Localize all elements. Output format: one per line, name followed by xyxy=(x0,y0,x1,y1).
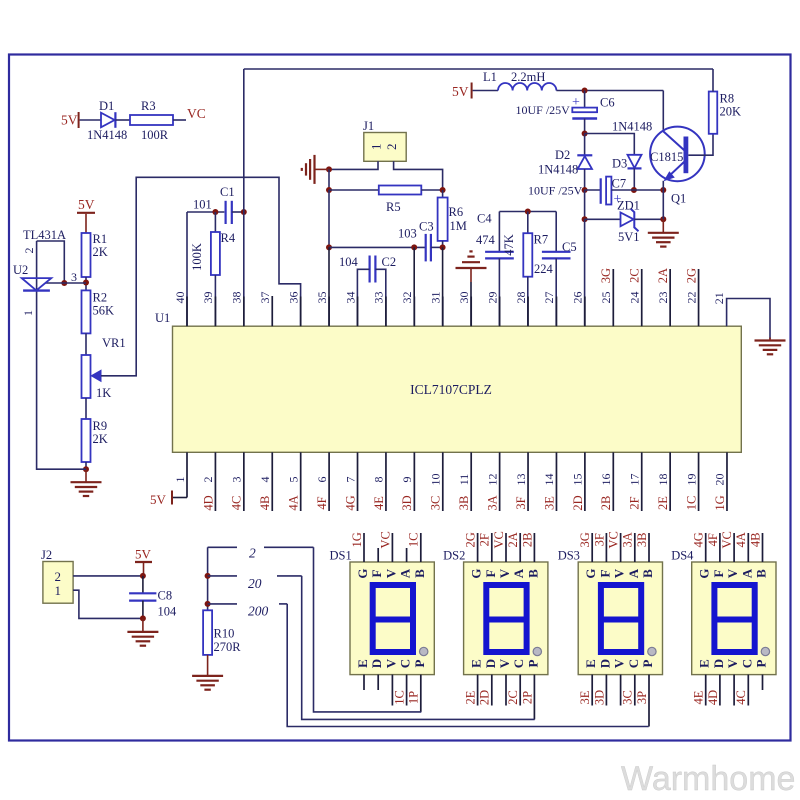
diode D1 1N4148 xyxy=(101,113,115,128)
svg-text:J2: J2 xyxy=(41,548,52,562)
svg-text:2: 2 xyxy=(384,144,399,151)
wire R8 top to rail xyxy=(712,69,714,92)
svg-text:3A: 3A xyxy=(485,495,499,510)
DS3 pin P (bottom) xyxy=(648,675,650,727)
DS2 digit segments xyxy=(486,585,526,652)
svg-text:2G: 2G xyxy=(463,532,477,547)
svg-text:1C: 1C xyxy=(407,533,421,548)
svg-text:C: C xyxy=(626,659,641,668)
svg-text:104: 104 xyxy=(158,605,178,619)
svg-text:C6: C6 xyxy=(600,96,615,110)
svg-text:4: 4 xyxy=(258,477,272,483)
resistor R6 1M xyxy=(442,190,444,198)
svg-text:1: 1 xyxy=(55,583,62,598)
DS3 decimal point xyxy=(648,647,656,655)
svg-text:4D: 4D xyxy=(706,690,720,705)
svg-text:V: V xyxy=(383,658,398,668)
node tap 200 xyxy=(205,601,211,607)
DS1 pin B (top) xyxy=(420,533,422,562)
svg-text:C4: C4 xyxy=(477,212,492,226)
svg-text:F: F xyxy=(483,569,498,577)
diode D3 1N4148 xyxy=(628,155,642,168)
wire C4 top lead xyxy=(498,212,500,252)
svg-text:2: 2 xyxy=(201,477,215,483)
pin 34 (U1 top) xyxy=(357,297,359,327)
svg-text:ICL7107CPLZ: ICL7107CPLZ xyxy=(410,382,492,397)
wire pin 32 column xyxy=(413,247,415,326)
svg-text:DS4: DS4 xyxy=(671,549,694,563)
svg-text:34: 34 xyxy=(343,292,357,304)
DS4 pin V (bottom) xyxy=(733,675,735,706)
DS4 decimal point xyxy=(761,647,769,655)
svg-text:R3: R3 xyxy=(141,99,156,113)
svg-text:31: 31 xyxy=(429,292,443,304)
node R7 top xyxy=(525,209,531,215)
wire C4 to pin 29 xyxy=(498,258,500,326)
svg-text:47K: 47K xyxy=(502,234,516,256)
pin 26 (U1 top) xyxy=(584,297,586,327)
DS3 pin V (top) xyxy=(620,533,622,562)
wire D3 node to emitter xyxy=(634,189,663,191)
DS2 pin G (top) xyxy=(477,533,479,562)
pin 24 (U1 top) xyxy=(641,269,643,326)
svg-text:18: 18 xyxy=(656,474,670,486)
svg-text:C: C xyxy=(398,659,413,668)
svg-text:C7: C7 xyxy=(612,177,627,191)
svg-text:1G: 1G xyxy=(350,532,364,547)
svg-text:10UF /25V: 10UF /25V xyxy=(528,183,583,197)
svg-text:ZD1: ZD1 xyxy=(617,199,640,213)
svg-text:200: 200 xyxy=(248,604,269,619)
pin 8 (U1 bottom) xyxy=(385,452,387,511)
wire 5V to D1 xyxy=(80,119,101,121)
svg-text:4G: 4G xyxy=(692,532,706,547)
svg-text:2G: 2G xyxy=(684,268,698,283)
svg-text:104: 104 xyxy=(339,255,359,269)
wire C8 bottom lead xyxy=(142,601,144,619)
wire to D3 xyxy=(585,134,635,155)
svg-text:F: F xyxy=(369,569,384,577)
pin 39 (U1 top) xyxy=(214,297,216,327)
ground (R10) xyxy=(207,655,209,676)
svg-text:20K: 20K xyxy=(720,105,742,119)
pin 13 (U1 bottom) xyxy=(527,452,529,511)
svg-text:103: 103 xyxy=(398,227,417,241)
svg-text:R10: R10 xyxy=(214,627,235,641)
node ZD1/emitter ground xyxy=(660,216,666,222)
svg-text:4G: 4G xyxy=(343,495,357,510)
svg-text:8: 8 xyxy=(372,477,386,483)
svg-text:2P: 2P xyxy=(520,691,534,704)
svg-text:C8: C8 xyxy=(158,589,173,603)
svg-text:C: C xyxy=(511,659,526,668)
svg-text:38: 38 xyxy=(230,292,244,304)
node emitter / C7 row xyxy=(660,187,666,193)
wire L1 to collector drop xyxy=(556,90,663,92)
pin 37 (U1 top) xyxy=(271,296,273,326)
svg-text:C1: C1 xyxy=(220,185,235,199)
svg-text:4E: 4E xyxy=(692,690,706,704)
svg-text:G: G xyxy=(697,568,712,578)
svg-text:2F: 2F xyxy=(478,533,492,546)
svg-text:100K: 100K xyxy=(190,243,204,271)
svg-text:D3: D3 xyxy=(612,157,627,171)
pin 11 (U1 bottom) xyxy=(470,452,472,511)
svg-text:4A: 4A xyxy=(734,532,748,547)
wire R1 to R2 xyxy=(85,277,87,290)
DS4 pin G (top) xyxy=(705,533,707,562)
svg-text:R9: R9 xyxy=(93,419,108,433)
svg-text:2.2mH: 2.2mH xyxy=(511,70,545,84)
wire R4 top lead xyxy=(214,212,216,232)
capacitor C7 10UF/25V xyxy=(600,178,602,204)
svg-text:14: 14 xyxy=(542,474,556,486)
wire Q1 emitter to C7 row node xyxy=(662,181,664,190)
node J1 pin1 / ground xyxy=(326,166,332,172)
svg-text:10: 10 xyxy=(429,474,443,486)
svg-text:Q1: Q1 xyxy=(671,192,686,206)
svg-text:4F: 4F xyxy=(706,533,720,546)
svg-text:224: 224 xyxy=(534,262,554,276)
svg-text:3C: 3C xyxy=(429,496,443,511)
svg-text:2D: 2D xyxy=(571,495,585,510)
svg-text:1K: 1K xyxy=(96,386,111,400)
svg-text:5V: 5V xyxy=(452,84,469,99)
svg-text:20: 20 xyxy=(713,474,727,486)
svg-text:G: G xyxy=(469,568,484,578)
wire R7 to pin 28 xyxy=(527,277,529,327)
svg-text:4E: 4E xyxy=(372,496,386,510)
svg-text:4F: 4F xyxy=(315,496,329,509)
pin 22 (U1 top) xyxy=(698,269,700,326)
svg-text:R2: R2 xyxy=(93,291,108,305)
DS2 pin D (bottom) xyxy=(491,675,493,706)
wire rail to ZD1 xyxy=(585,218,621,220)
node pin 32 top xyxy=(411,244,417,250)
svg-text:1M: 1M xyxy=(450,219,467,233)
svg-text:101: 101 xyxy=(193,198,212,212)
node D3/C7 right xyxy=(631,187,637,193)
svg-text:DS2: DS2 xyxy=(443,549,465,563)
power flag 5V (pin 1) xyxy=(172,497,187,499)
svg-text:100R: 100R xyxy=(141,128,169,142)
wire 101 node row xyxy=(187,211,224,213)
svg-text:5V: 5V xyxy=(150,492,167,507)
wire D3 to C7 node xyxy=(633,168,635,190)
pin 12 (U1 bottom) xyxy=(499,452,501,511)
svg-text:29: 29 xyxy=(485,292,499,304)
transistor Q1 C1815 xyxy=(650,127,705,182)
DS3 pin E (bottom) xyxy=(591,675,593,706)
DS3 pin V (bottom) xyxy=(620,675,622,706)
node tap 20 xyxy=(205,573,211,579)
pin 20 (U1 bottom) xyxy=(726,452,728,511)
pin 17 (U1 bottom) xyxy=(641,452,643,511)
svg-text:VC: VC xyxy=(187,106,206,121)
connector J1 xyxy=(364,133,406,162)
pin 18 (U1 bottom) xyxy=(669,452,671,511)
resistor R4 100K xyxy=(211,232,220,275)
wire R3 to VC xyxy=(173,119,186,121)
svg-text:V: V xyxy=(725,568,740,578)
wire R10 column top xyxy=(207,547,209,610)
DS4 pin C (bottom) xyxy=(747,675,749,706)
svg-text:2B: 2B xyxy=(520,533,534,548)
wire C6 node to D2 xyxy=(584,134,586,156)
resistor R5 xyxy=(379,186,422,195)
ground (J1, pointing left) xyxy=(315,168,330,170)
svg-text:1N4148: 1N4148 xyxy=(538,163,578,177)
ground (R9 bottom) xyxy=(85,469,87,482)
node C8 bottom / ground xyxy=(140,615,146,621)
svg-text:3F: 3F xyxy=(514,496,528,509)
svg-text:P: P xyxy=(753,659,768,667)
pin 25 (U1 top) xyxy=(612,269,614,326)
wire column to C3 row xyxy=(328,190,330,247)
wire C3 to R6 node xyxy=(431,246,443,248)
wire C4/R7/C5 top row xyxy=(499,211,556,213)
svg-text:R5: R5 xyxy=(386,200,401,214)
DS2 decimal point xyxy=(533,647,541,655)
pin 15 (U1 bottom) xyxy=(584,452,586,511)
wire tap20 to DS2 P xyxy=(302,576,535,720)
svg-text:1C: 1C xyxy=(392,690,406,705)
svg-text:27: 27 xyxy=(542,292,556,304)
node J2/5V/C8 xyxy=(140,573,146,579)
svg-text:1G: 1G xyxy=(713,495,727,510)
wire rail C7 row to ZD1 row xyxy=(584,190,586,219)
svg-text:1: 1 xyxy=(368,144,383,151)
DS2 pin A (top) xyxy=(519,533,521,562)
wire J1 pin1 lead xyxy=(329,161,378,169)
svg-text:D: D xyxy=(369,659,384,668)
svg-text:39: 39 xyxy=(201,292,215,304)
pin 16 (U1 bottom) xyxy=(612,452,614,511)
svg-text:G: G xyxy=(355,568,370,578)
wire R6 to C3 row xyxy=(442,241,444,248)
DS2 pin B (top) xyxy=(533,533,535,562)
7-segment display DS2 xyxy=(464,562,548,675)
DS4 digit segments xyxy=(714,585,754,652)
DS1 pin G (top) xyxy=(363,533,365,562)
DS2 pin C (bottom) xyxy=(519,675,521,706)
svg-text:J1: J1 xyxy=(363,119,374,133)
svg-text:DS3: DS3 xyxy=(558,549,580,563)
svg-text:R4: R4 xyxy=(221,231,236,245)
svg-text:12: 12 xyxy=(485,474,499,486)
svg-text:30: 30 xyxy=(457,292,471,304)
pin 14 (U1 bottom) xyxy=(555,452,557,511)
svg-text:2C: 2C xyxy=(506,690,520,705)
capacitor C2 104 xyxy=(369,256,371,283)
svg-text:B: B xyxy=(412,569,427,578)
DS4 pin B (top) xyxy=(762,533,764,562)
node U2 ref to cathode wire xyxy=(61,280,67,286)
svg-text:2A: 2A xyxy=(656,268,670,283)
svg-text:B: B xyxy=(525,569,540,578)
svg-text:10UF /25V: 10UF /25V xyxy=(516,103,571,117)
svg-text:V: V xyxy=(497,568,512,578)
svg-text:1C: 1C xyxy=(684,496,698,511)
svg-text:E: E xyxy=(355,659,370,668)
wire C2 left to pin 34 xyxy=(357,269,369,326)
wire 5V to L1 xyxy=(473,90,498,92)
DS1 pin P (bottom) xyxy=(420,675,422,712)
ground (pin 21) xyxy=(769,338,771,341)
svg-text:5: 5 xyxy=(286,477,300,483)
potentiometer VR1 1K xyxy=(82,355,91,398)
wire range tap 2 row xyxy=(208,546,237,548)
wire VR1 wiper to IC pin 36 xyxy=(101,177,301,375)
svg-text:1P: 1P xyxy=(407,691,421,704)
svg-text:L1: L1 xyxy=(483,70,497,84)
wire C6 to D2 node xyxy=(584,119,586,134)
wire rail to C7 xyxy=(585,189,601,191)
svg-text:5V1: 5V1 xyxy=(618,230,640,244)
pin 35 (U1 top) xyxy=(328,297,330,327)
capacitor C4 474 xyxy=(485,251,514,253)
svg-text:A: A xyxy=(739,568,754,578)
resistor R7 47K xyxy=(523,233,532,277)
node R5/R6/J1 xyxy=(440,187,446,193)
svg-text:32: 32 xyxy=(400,292,414,304)
pin 2 (U1 bottom) xyxy=(214,452,216,511)
DS3 digit segments xyxy=(601,585,641,652)
DS1 pin E (bottom) xyxy=(363,675,365,690)
DS4 pin F (top) xyxy=(719,533,721,562)
svg-text:4B: 4B xyxy=(258,496,272,511)
svg-text:25: 25 xyxy=(599,292,613,304)
svg-text:3G: 3G xyxy=(599,268,613,283)
svg-text:R6: R6 xyxy=(449,205,464,219)
wire rail to C6 xyxy=(584,91,586,108)
svg-text:U2: U2 xyxy=(13,263,28,277)
wire VR1 to R9 xyxy=(85,398,87,419)
svg-text:23: 23 xyxy=(656,292,670,304)
pin 29 (U1 top) xyxy=(499,297,501,327)
DS4 pin V (top) xyxy=(733,533,735,562)
svg-text:5V: 5V xyxy=(61,113,78,128)
DS1 decimal point xyxy=(420,647,428,655)
wire J1 pin2 lead to R6 top xyxy=(394,161,443,190)
svg-text:474: 474 xyxy=(476,233,496,247)
svg-text:R1: R1 xyxy=(93,232,108,246)
svg-text:2E: 2E xyxy=(656,496,670,510)
pin 27 (U1 top) xyxy=(555,297,557,327)
svg-text:2K: 2K xyxy=(93,245,108,259)
svg-text:D: D xyxy=(597,659,612,668)
ground (C8) xyxy=(142,618,144,632)
capacitor C3 103 xyxy=(425,234,427,262)
wire Q1 base to R8 xyxy=(688,134,713,155)
wire R9 to ground node xyxy=(85,462,87,469)
pin 21 (U1 top) wire to ground xyxy=(727,299,770,340)
svg-text:VC: VC xyxy=(492,531,506,548)
svg-text:E: E xyxy=(697,659,712,668)
node C6/D2/D3 wire xyxy=(582,131,588,137)
svg-text:2B: 2B xyxy=(599,496,613,511)
DS4 pin P (bottom) xyxy=(762,675,764,690)
svg-text:22: 22 xyxy=(684,292,698,304)
DS3 pin G (top) xyxy=(591,533,593,562)
node R9 bottom / anode return xyxy=(83,466,89,472)
svg-text:1: 1 xyxy=(21,310,35,316)
svg-text:C2: C2 xyxy=(382,255,397,269)
svg-text:1N4148: 1N4148 xyxy=(612,120,652,134)
pin 36 (U1 top) xyxy=(300,297,302,327)
resistor R8 20K xyxy=(709,92,718,134)
svg-text:17: 17 xyxy=(627,474,641,486)
svg-text:V: V xyxy=(725,658,740,668)
DS3 pin C (bottom) xyxy=(634,675,636,706)
node R4 top xyxy=(212,209,218,215)
svg-text:2D: 2D xyxy=(478,690,492,705)
wire pin 31 column xyxy=(442,247,444,326)
svg-text:2F: 2F xyxy=(628,496,642,509)
pin 10 (U1 bottom) xyxy=(442,452,444,511)
ground (Q1 emitter) xyxy=(662,219,664,233)
DS1 pin D (bottom) xyxy=(377,675,379,690)
pin 9 (U1 bottom) xyxy=(413,452,415,511)
wire collector drop xyxy=(662,91,664,131)
node R1/R2/U2 junction xyxy=(83,280,89,286)
DS4 pin D (bottom) xyxy=(719,675,721,706)
DS4 pin A (top) xyxy=(747,533,749,562)
svg-text:D: D xyxy=(711,659,726,668)
svg-text:C5: C5 xyxy=(562,240,577,254)
wire U2 cathode to R1/R2 node xyxy=(46,282,87,284)
svg-text:A: A xyxy=(511,568,526,578)
svg-text:270R: 270R xyxy=(214,640,242,654)
svg-text:A: A xyxy=(626,568,641,578)
wire ground to pin 30 xyxy=(470,282,472,326)
node L1 / C6 rail xyxy=(582,88,588,94)
svg-text:TL431A: TL431A xyxy=(23,228,66,242)
svg-text:B: B xyxy=(753,569,768,578)
svg-text:VC: VC xyxy=(378,531,392,548)
DS3 pin F (top) xyxy=(605,533,607,562)
svg-text:V: V xyxy=(383,568,398,578)
svg-text:4C: 4C xyxy=(734,690,748,705)
DS2 pin V (top) xyxy=(505,533,507,562)
wire C3 row xyxy=(329,246,425,248)
svg-text:3C: 3C xyxy=(621,690,635,705)
pin 38 (U1 top) xyxy=(243,297,245,327)
capacitor C5 224 xyxy=(542,251,571,253)
svg-text:V: V xyxy=(497,658,512,668)
svg-text:4D: 4D xyxy=(201,495,215,510)
svg-text:V: V xyxy=(612,658,627,668)
pin 28 (U1 top) xyxy=(527,297,529,327)
svg-text:11: 11 xyxy=(457,474,471,486)
wire C1 to pin38 rail xyxy=(232,211,244,213)
DS1 pin F (top) xyxy=(377,548,379,562)
svg-text:7: 7 xyxy=(343,477,357,483)
svg-text:G: G xyxy=(583,568,598,578)
pin 3 (U1 bottom) xyxy=(243,452,245,511)
svg-text:DS1: DS1 xyxy=(330,549,352,563)
svg-text:2: 2 xyxy=(249,546,256,561)
wire emitter vertical xyxy=(662,190,664,219)
resistor R2 56K xyxy=(82,290,91,333)
svg-text:16: 16 xyxy=(599,474,613,486)
svg-text:P: P xyxy=(525,659,540,667)
svg-text:2E: 2E xyxy=(463,690,477,704)
svg-text:24: 24 xyxy=(627,292,641,304)
svg-text:U1: U1 xyxy=(155,311,170,325)
svg-text:3D: 3D xyxy=(592,690,606,705)
wire J2 pin1 loop xyxy=(73,590,143,618)
